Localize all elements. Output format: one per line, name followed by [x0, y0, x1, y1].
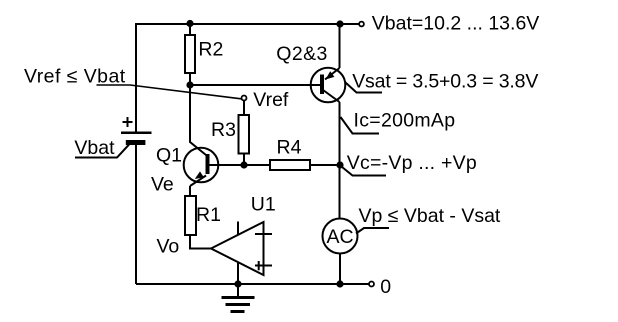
svg-text:Q2&3: Q2&3: [276, 43, 327, 65]
svg-text:Vref ≤ Vbat: Vref ≤ Vbat: [24, 66, 126, 88]
svg-text:Vp ≤ Vbat - Vsat: Vp ≤ Vbat - Vsat: [359, 205, 501, 227]
svg-text:R2: R2: [198, 39, 223, 61]
svg-text:0: 0: [380, 276, 391, 298]
svg-text:Vsat = 3.5+0.3 = 3.8V: Vsat = 3.5+0.3 = 3.8V: [352, 71, 538, 93]
svg-text:Ve: Ve: [151, 174, 174, 196]
svg-text:AC: AC: [327, 226, 354, 248]
svg-text:Vref: Vref: [253, 89, 289, 111]
svg-text:Vbat: Vbat: [74, 137, 115, 159]
svg-text:Vc=-Vp ... +Vp: Vc=-Vp ... +Vp: [347, 152, 477, 174]
svg-text:R4: R4: [277, 137, 302, 159]
svg-text:R3: R3: [211, 119, 236, 141]
svg-text:U1: U1: [251, 194, 276, 216]
svg-text:Q1: Q1: [156, 145, 182, 167]
svg-text:R1: R1: [196, 204, 221, 226]
svg-text:Ic=200mAp: Ic=200mAp: [354, 110, 456, 132]
svg-text:Vbat=10.2 ... 13.6V: Vbat=10.2 ... 13.6V: [372, 13, 540, 35]
svg-text:Vo: Vo: [157, 236, 180, 258]
